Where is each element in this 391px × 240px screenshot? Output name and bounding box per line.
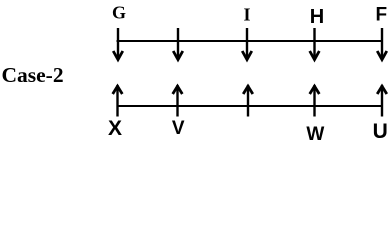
- down arrow 4 (H): [310, 28, 320, 60]
- up arrow 5 (U): [377, 85, 387, 117]
- svg-text:W: W: [306, 124, 324, 145]
- down arrow 5 (F): [377, 28, 387, 60]
- svg-text:F: F: [375, 4, 387, 25]
- down arrow 1 (G): [113, 28, 123, 60]
- svg-text:G: G: [112, 3, 126, 23]
- svg-text:H: H: [310, 6, 324, 28]
- bottom horizontal line: [117, 105, 384, 107]
- svg-text:X: X: [108, 117, 122, 140]
- svg-text:Case-2: Case-2: [2, 63, 64, 87]
- top horizontal line: [117, 40, 384, 42]
- up arrow 4 (W): [310, 85, 320, 117]
- up arrow 3: [243, 85, 253, 117]
- svg-text:U: U: [373, 120, 388, 143]
- up arrow 1 (X): [113, 85, 123, 117]
- svg-text:I: I: [243, 5, 250, 25]
- down arrow 3 (I): [242, 28, 252, 60]
- down arrow 2: [173, 28, 183, 60]
- up arrow 2 (V): [173, 85, 183, 117]
- svg-text:V: V: [172, 118, 185, 139]
